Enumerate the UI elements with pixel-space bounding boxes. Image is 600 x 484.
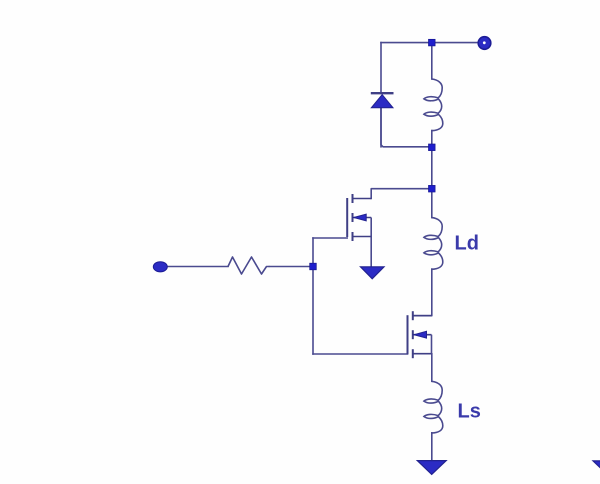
input terminal: [153, 262, 167, 272]
wire input to resistor: [166, 266, 228, 268]
wire gate Q1: [313, 237, 347, 239]
ground (Q1 source arrow): [361, 267, 385, 279]
svg-text:Ls: Ls: [458, 401, 481, 423]
wire resistor to node: [270, 266, 314, 268]
diode D1: [371, 93, 394, 108]
ground (main): [417, 461, 446, 475]
wire Q2 source to Ls: [431, 354, 433, 382]
inductor L1 (freewheel): [424, 79, 443, 131]
wire node to Ld: [431, 189, 433, 218]
wire diode branch bottom: [381, 108, 432, 147]
wire top rail: [381, 42, 478, 44]
ground (clipped, bottom right): [593, 461, 600, 475]
wire Q1 drain to node: [371, 189, 432, 199]
wire top node to freewheel coil: [431, 43, 433, 79]
wire Ld to Q2 drain: [413, 269, 432, 316]
node C (drain junction): [429, 185, 436, 192]
inductor Ld: [424, 218, 443, 270]
wire between nodes: [431, 147, 433, 188]
wire gate Q2: [313, 353, 408, 355]
node A (top junction): [429, 39, 436, 46]
wire freewheel coil to node: [431, 131, 433, 148]
inductor Ls: [424, 381, 443, 433]
transistor Q2 (lower MOSFET): [408, 311, 432, 358]
wire gate bus vertical: [312, 238, 314, 354]
wire Q1 body-source to arrow: [370, 237, 372, 267]
node B (mid junction): [429, 144, 436, 151]
node D (gate junction): [310, 263, 317, 270]
output terminal: [478, 37, 491, 50]
resistor R1: [228, 257, 270, 274]
transistor Q1 (upper MOSFET): [347, 194, 371, 241]
wire diode branch down (anode-cathode leads): [380, 43, 382, 93]
svg-text:Ld: Ld: [455, 233, 479, 255]
wire Ls to ground: [431, 433, 433, 461]
